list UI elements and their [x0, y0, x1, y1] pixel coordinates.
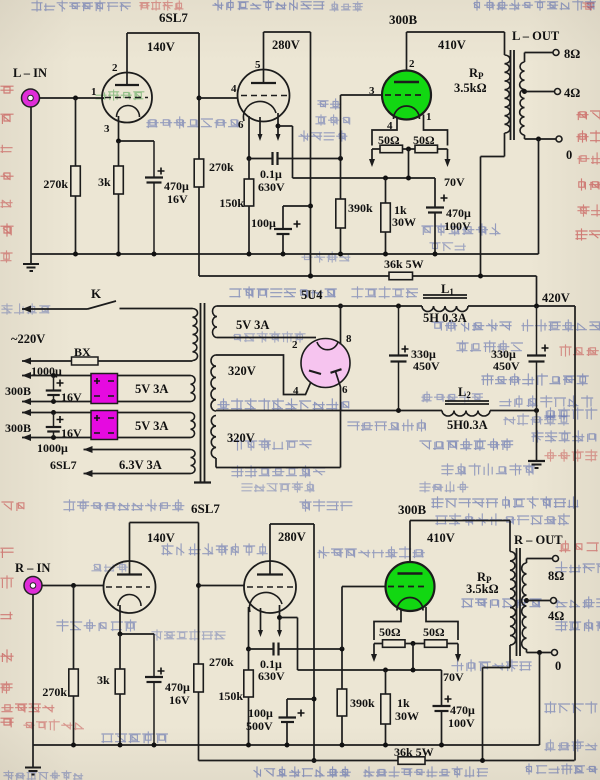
secondary 8ohm tap R — [527, 556, 565, 584]
wire V1b cathode to coupling node — [247, 116, 252, 161]
output transformer L secondary — [520, 53, 525, 140]
label 410V bottom — [427, 531, 455, 545]
resistor 150k (V2b cathode) — [218, 649, 253, 745]
svg-text:410V: 410V — [427, 531, 455, 545]
pin 1 label 300B — [426, 111, 432, 123]
ground symbol bottom-left — [25, 745, 41, 775]
label 6SL7 bottom — [191, 501, 220, 516]
rectifier block row1 — [91, 374, 118, 404]
svg-text:5H 0.3A: 5H 0.3A — [423, 311, 467, 325]
power transformer core — [194, 303, 211, 483]
svg-text:50Ω: 50Ω — [423, 625, 445, 639]
svg-text:4Ω: 4Ω — [564, 86, 580, 100]
svg-text:3k: 3k — [98, 175, 111, 189]
svg-text:36k 5W: 36k 5W — [394, 745, 434, 759]
svg-text:630V: 630V — [258, 669, 285, 683]
svg-text:6SL7: 6SL7 — [159, 10, 188, 25]
svg-text:1k: 1k — [397, 696, 410, 710]
ground symbol top-left — [23, 254, 39, 271]
secondary 0 tap R — [527, 650, 562, 674]
svg-text:16V: 16V — [167, 192, 188, 206]
svg-text:16V: 16V — [61, 426, 82, 440]
capacitor 100u (280V decoupling) — [251, 206, 311, 254]
output transformer R core — [517, 548, 521, 656]
wire 300B grid R — [342, 587, 386, 650]
svg-text:36k 5W: 36k 5W — [384, 257, 424, 271]
svg-text:6.3V 3A: 6.3V 3A — [119, 458, 162, 472]
capacitor 470u100V (300B cathode) — [426, 178, 471, 254]
svg-text:2: 2 — [409, 58, 415, 70]
resistor 3k (V1a cathode) — [98, 141, 123, 254]
svg-text:320V: 320V — [228, 364, 256, 378]
wire 300B grid — [341, 95, 383, 159]
wire hum pot tap to cathode node — [406, 147, 411, 181]
triode V2b 6SL7 — [244, 561, 296, 613]
rectifier block row2 — [91, 411, 118, 440]
svg-text:0: 0 — [555, 659, 561, 673]
svg-text:420V: 420V — [542, 291, 570, 305]
svg-text:3.5kΩ: 3.5kΩ — [454, 81, 487, 95]
280V feed line with 36k — [199, 274, 537, 307]
wire secondary 0 to ground rail R — [537, 650, 542, 745]
winding 5V 3A rectifier filament — [213, 306, 317, 338]
svg-text:270k: 270k — [42, 685, 67, 699]
wire 300B R pin4 to hum pot — [374, 609, 401, 641]
output tube 300B (R) — [386, 562, 435, 611]
label 140V bottom — [147, 531, 175, 545]
svg-text:470μ: 470μ — [164, 179, 189, 193]
svg-text:390k: 390k — [348, 201, 373, 215]
capacitor 330u450V left — [389, 306, 440, 411]
label 420V — [542, 291, 570, 305]
svg-text:270k: 270k — [209, 160, 234, 174]
svg-text:140V: 140V — [147, 40, 175, 54]
wire V2b plate to 280V — [270, 524, 317, 763]
label R-OUT — [514, 533, 563, 547]
svg-text:8: 8 — [346, 333, 352, 345]
capacitor 0.1u 630V coupling R — [249, 643, 343, 684]
wire V1a cathode — [116, 116, 154, 144]
svg-text:BX: BX — [74, 345, 91, 359]
capacitor 330u450V right — [491, 306, 549, 411]
svg-text:0: 0 — [566, 148, 572, 162]
wire V2a cathode — [118, 605, 155, 637]
wire V1b plate to 280V rail — [264, 32, 314, 279]
pin 4 label 5U4 — [293, 385, 299, 397]
svg-text:300B: 300B — [389, 12, 418, 27]
svg-text:~220V: ~220V — [11, 332, 45, 346]
svg-text:L – OUT: L – OUT — [512, 29, 560, 43]
resistor 1k 30W (300B cathode) — [381, 176, 416, 255]
wire V2b cathode to coupling node — [246, 607, 251, 652]
wire V1a plate to V1b grid — [199, 97, 238, 99]
resistor 1k 30W R — [381, 668, 419, 746]
choke L2 — [442, 385, 490, 432]
svg-text:4: 4 — [293, 385, 299, 397]
resistor 36k 5W top — [384, 257, 424, 280]
output transformer L core — [511, 50, 515, 140]
svg-text:70V: 70V — [444, 175, 465, 189]
power transformer primary winding — [193, 309, 198, 361]
resistor 150k (V1b cathode) — [219, 159, 253, 255]
capacitor 0.1u 630V coupling — [249, 152, 341, 194]
triode V2a 6SL7 — [104, 561, 156, 613]
ground rail top section — [31, 252, 539, 257]
pin 1 label V1a — [91, 86, 97, 98]
wire V1a plate to 270k plate load — [127, 33, 202, 276]
pin 4 label V1b — [231, 83, 237, 95]
svg-text:L – IN: L – IN — [13, 66, 47, 80]
wire heater bias to 70V node — [278, 126, 435, 178]
label 5U4 — [301, 288, 323, 302]
capacitor 470u100V R — [433, 670, 476, 745]
heater lead V2b right — [277, 605, 282, 637]
winding 5V row1 — [135, 376, 195, 402]
wire secondary 0 to ground rail — [536, 137, 541, 255]
label 6SL7 top — [159, 10, 188, 25]
svg-text:5V 3A: 5V 3A — [236, 318, 269, 332]
svg-text:8Ω: 8Ω — [548, 569, 564, 583]
svg-text:450V: 450V — [413, 359, 440, 373]
wire 300B R plate to OPT — [410, 521, 510, 563]
svg-text:3: 3 — [369, 85, 375, 97]
svg-text:8Ω: 8Ω — [564, 47, 580, 61]
label 70V bottom — [443, 670, 464, 684]
svg-text:300B: 300B — [5, 384, 31, 398]
svg-text:6SL7: 6SL7 — [191, 501, 220, 516]
svg-text:6: 6 — [238, 119, 244, 131]
420V feed line bottom with 36k — [199, 758, 575, 763]
svg-text:280V: 280V — [278, 530, 306, 544]
pin 4 label 300B — [387, 120, 393, 132]
svg-text:5H0.3A: 5H0.3A — [447, 418, 488, 432]
triode V1b 6SL7 — [238, 70, 290, 122]
wire heater bias to 70V node R — [280, 618, 442, 671]
svg-text:K: K — [91, 286, 102, 301]
svg-text:5V 3A: 5V 3A — [135, 419, 168, 433]
svg-text:280V: 280V — [272, 38, 300, 52]
svg-text:4Ω: 4Ω — [548, 609, 564, 623]
ground symbol supply — [528, 411, 545, 469]
resistor 390k (300B grid leak R) — [337, 647, 375, 746]
capacitor 1000u16V row2 — [46, 410, 82, 440]
pin 6 label V1b — [238, 119, 244, 131]
svg-text:270k: 270k — [209, 655, 234, 669]
label 300B row2 — [5, 421, 31, 435]
label 1000u first — [31, 364, 62, 378]
svg-text:5: 5 — [255, 59, 261, 71]
svg-text:390k: 390k — [350, 696, 375, 710]
heater lead V1b right — [276, 113, 281, 141]
secondary 0 tap — [525, 136, 573, 162]
svg-text:R – IN: R – IN — [15, 561, 50, 575]
pin 8 label 5U4 — [346, 333, 352, 345]
label 1000u second — [37, 441, 68, 455]
label 6SL7 row3 — [50, 458, 77, 472]
pin 3 label V1a — [104, 123, 110, 135]
label Rp 3.5k — [454, 66, 487, 95]
center tap line — [216, 408, 539, 413]
output transformer L primary — [481, 32, 511, 276]
capacitor 100u 500V (R decoupling) — [246, 699, 314, 745]
svg-text:0.1μ: 0.1μ — [260, 167, 282, 181]
resistor 50ohm right (hum) — [409, 133, 448, 153]
svg-text:300B: 300B — [398, 502, 427, 517]
svg-text:R – OUT: R – OUT — [514, 533, 563, 547]
resistor 36k 5W bottom — [394, 745, 434, 764]
resistor 270k (V1a plate load) — [194, 159, 234, 187]
filament supply row1 wires — [22, 372, 191, 405]
wire input jack to V2 grid — [42, 583, 105, 588]
wire R jack down to ground rail — [32, 594, 34, 745]
label Rp 3.5k R — [466, 570, 499, 596]
svg-text:100μ: 100μ — [248, 706, 273, 720]
filament supply row2 wires — [22, 409, 191, 441]
resistor 50ohm left R — [374, 625, 413, 647]
pin 2 label V1a — [112, 62, 118, 74]
svg-text:270k: 270k — [43, 177, 68, 191]
capacitor 1000u16V row1 — [46, 373, 82, 404]
input jack L-IN — [22, 89, 40, 107]
resistor 50ohm right R — [413, 625, 458, 647]
heater lead V1b left — [258, 117, 263, 141]
svg-text:1: 1 — [91, 86, 97, 98]
capacitor 470u16V (V1a cathode bypass) — [145, 141, 189, 254]
svg-text:1000μ: 1000μ — [37, 441, 68, 455]
svg-text:150k: 150k — [218, 689, 243, 703]
resistor 270k (R grid leak) — [42, 586, 78, 746]
secondary 4ohm tap — [522, 86, 580, 100]
output transformer R secondary — [522, 559, 527, 653]
svg-text:500V: 500V — [246, 719, 273, 733]
filament feed arrow left (to 300B supply) — [369, 149, 375, 167]
output transformer R primary — [483, 521, 516, 761]
wire input jack down to ground rail — [30, 107, 32, 255]
svg-text:30W: 30W — [392, 215, 416, 229]
winding 320V upper — [211, 355, 315, 411]
label ~220V — [11, 332, 45, 346]
capacitor 470u16V (V2a bypass) — [145, 634, 190, 745]
svg-text:30W: 30W — [395, 709, 419, 723]
choke L1 — [422, 282, 468, 325]
wire hum tap R — [411, 641, 416, 673]
label 280V — [272, 38, 300, 52]
label R-IN — [15, 561, 50, 575]
switch K — [22, 286, 193, 313]
label 140V — [147, 40, 175, 54]
svg-text:6SL7: 6SL7 — [50, 458, 77, 472]
filament feed arrows R — [371, 644, 461, 663]
pin 5 label V1b — [255, 59, 261, 71]
pin 2 label 300B — [409, 58, 415, 70]
wire 300B plate to OPT — [407, 32, 505, 71]
label L-IN — [13, 66, 47, 80]
label pin 3 300B — [369, 85, 375, 97]
input jack R-IN — [24, 577, 42, 595]
svg-text:450V: 450V — [493, 359, 520, 373]
winding 320V lower — [211, 416, 255, 468]
label 70V — [444, 175, 465, 189]
svg-text:100μ: 100μ — [251, 216, 276, 230]
resistor 270k (V2a plate load) — [194, 655, 234, 692]
fuse BX — [22, 345, 193, 365]
resistor 3k (V2a cathode) — [97, 634, 125, 745]
rectifier 5U4 — [301, 339, 350, 388]
label 280V bottom — [278, 530, 306, 544]
svg-text:2: 2 — [112, 62, 118, 74]
svg-text:3k: 3k — [97, 673, 110, 687]
svg-text:50Ω: 50Ω — [379, 625, 401, 639]
label 300B bottom — [398, 502, 427, 517]
label 410V — [438, 38, 466, 52]
svg-text:470μ: 470μ — [165, 680, 190, 694]
wire 300B pin4 to hum pot — [372, 117, 397, 146]
svg-text:470μ: 470μ — [446, 206, 471, 220]
label L-OUT — [512, 29, 560, 43]
svg-text:16V: 16V — [61, 390, 82, 404]
output tube 300B (L) — [382, 71, 431, 120]
resistor 270k (L grid leak) — [43, 98, 80, 254]
svg-text:410V: 410V — [438, 38, 466, 52]
svg-text:2: 2 — [292, 339, 298, 351]
winding 5V row2 — [135, 413, 195, 438]
svg-text:4: 4 — [231, 83, 237, 95]
label 300B top — [389, 12, 418, 27]
winding 6.3V row3 — [119, 450, 195, 474]
wire 300B R pin1 to hum pot — [426, 607, 458, 640]
svg-text:70V: 70V — [443, 670, 464, 684]
wire 5U4 pin6 anode to 320V lower — [216, 372, 341, 468]
wire 5U4 pin8 to B+ rail — [338, 304, 343, 345]
svg-text:3.5kΩ: 3.5kΩ — [466, 582, 499, 596]
svg-text:50Ω: 50Ω — [413, 133, 435, 147]
svg-text:50Ω: 50Ω — [378, 133, 400, 147]
secondary 4ohm tap R — [524, 598, 564, 624]
wire V2a plate to V2b grid — [199, 585, 245, 587]
svg-text:470μ: 470μ — [450, 703, 475, 717]
heater lead V2b left — [258, 608, 263, 637]
resistor 50ohm left (hum) — [372, 133, 409, 153]
wire 300B pin1 to hum pot — [424, 115, 448, 146]
svg-text:300B: 300B — [5, 421, 31, 435]
secondary 8ohm tap — [525, 47, 581, 61]
heater supply row3 wires — [84, 446, 191, 477]
ground rail bottom section — [33, 743, 540, 748]
svg-text:100V: 100V — [448, 716, 475, 730]
triode V1a 6SL7 — [102, 73, 152, 123]
svg-text:320V: 320V — [227, 431, 255, 445]
wire V2a plate to plate load — [130, 523, 202, 761]
svg-text:100V: 100V — [444, 219, 471, 233]
svg-text:1: 1 — [426, 111, 432, 123]
svg-text:5V 3A: 5V 3A — [135, 382, 168, 396]
svg-text:630V: 630V — [258, 180, 285, 194]
svg-text:16V: 16V — [169, 693, 190, 707]
svg-text:3: 3 — [104, 123, 110, 135]
filament feed arrow right (to 300B supply) — [445, 149, 451, 167]
svg-text:5U4: 5U4 — [301, 288, 323, 302]
wire input jack to V1 grid — [39, 96, 104, 101]
B+ rail 420V — [217, 304, 575, 761]
svg-text:6: 6 — [342, 384, 348, 396]
label 300B row1 — [5, 384, 31, 398]
pin 2 label 5U4 — [292, 339, 298, 351]
svg-text:140V: 140V — [147, 531, 175, 545]
svg-text:150k: 150k — [219, 196, 244, 210]
pin 6 label 5U4 — [342, 384, 348, 396]
resistor 390k (300B grid leak) — [336, 156, 373, 254]
